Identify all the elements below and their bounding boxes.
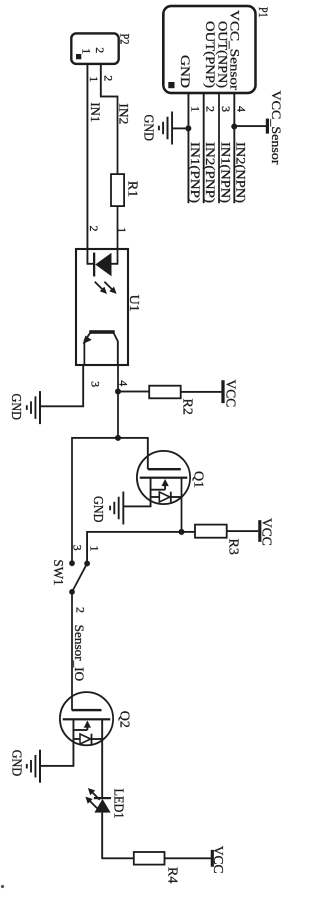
svg-text:GND: GND [91, 496, 106, 523]
wire R3 to VCC [227, 530, 259, 532]
connector P2 box [71, 33, 118, 64]
svg-text:3: 3 [89, 381, 103, 387]
U1 transistor base bar [89, 330, 115, 334]
wire R1 to U1 pin1 [117, 206, 119, 249]
scan speck [1, 885, 4, 888]
wire Q2 source to ground [40, 739, 73, 766]
svg-text:IN2(NPN): IN2(NPN) [234, 142, 248, 203]
channel bar [63, 718, 111, 720]
wire U1 pin1 to LED anode [112, 249, 118, 264]
wire LED cathode to U1 pin2 [87, 249, 93, 264]
svg-text:U1: U1 [126, 295, 141, 312]
wire to VCC_Sensor bar [234, 125, 266, 127]
svg-text:P1: P1 [256, 7, 271, 18]
svg-text:GND: GND [9, 750, 24, 777]
svg-text:2: 2 [93, 47, 107, 53]
svg-text:VCC: VCC [260, 518, 275, 546]
gate bar [148, 468, 181, 470]
svg-text:1: 1 [88, 546, 102, 552]
svg-text:P2: P2 [117, 34, 132, 45]
svg-text:R1: R1 [124, 181, 139, 197]
svg-text:Sensor_IO: Sensor_IO [72, 625, 86, 682]
light arrow 1 of LED1 [91, 791, 100, 800]
ground symbol at Q2 source [39, 750, 41, 783]
connector P1 box [163, 6, 255, 93]
wire corner up to R4 [101, 857, 133, 859]
wire junction to Q1 gate [118, 438, 148, 469]
svg-text:LED1: LED1 [111, 789, 126, 819]
svg-text:Q2: Q2 [116, 711, 131, 728]
SW1 throw 1 contact [84, 561, 90, 567]
SW1 throw 3 contact [69, 560, 75, 566]
wire P1 pin1 net IN1(PNP) [187, 93, 189, 203]
svg-text:VCC: VCC [224, 380, 239, 408]
resistor R2 [149, 386, 181, 399]
mosfet Q1 [137, 451, 190, 504]
junction P1 pin4 to VCC_Sensor [231, 124, 237, 130]
wire P1 pin4 net IN2(NPN) [233, 93, 235, 203]
source-body tie wire [151, 489, 166, 491]
P1 pin1 marker dot [169, 83, 174, 88]
ground symbol at U1 pin3 [39, 391, 41, 424]
svg-text:IN2(PNP): IN2(PNP) [203, 142, 217, 203]
svg-text:1: 1 [87, 76, 101, 82]
svg-text:3: 3 [219, 106, 233, 112]
source-body tie wire [73, 729, 87, 731]
svg-text:GND: GND [178, 55, 193, 88]
svg-text:1: 1 [115, 227, 129, 233]
U1 transistor collector to pin4 [114, 333, 118, 365]
power VCC at R2 [221, 380, 224, 403]
svg-text:R3: R3 [226, 539, 241, 555]
wire P1 pin2 net IN2(PNP) [203, 93, 205, 203]
svg-text:2: 2 [102, 75, 116, 81]
opto U1 box [76, 249, 128, 365]
mosfet Q2 [60, 692, 113, 745]
LED cathode bar inside U1 [93, 253, 95, 277]
wire junction to SW1 throw 3 [72, 438, 118, 563]
gate bar [72, 709, 102, 711]
wire P1 pin3 net IN1(NPN) [218, 93, 220, 203]
source stub [72, 719, 74, 739]
light arrow 2 of U1 [104, 282, 113, 291]
svg-text:4: 4 [234, 106, 248, 112]
wire Q2 drain to LED1 cathode [101, 739, 103, 797]
svg-text:2: 2 [73, 607, 87, 613]
mosfet body circle [137, 451, 190, 504]
svg-text:3: 3 [70, 545, 84, 551]
svg-text:IN1(NPN): IN1(NPN) [218, 142, 232, 203]
power VCC_Sensor bar [266, 119, 269, 134]
wire SW1 common to Q2 gate [71, 592, 73, 710]
wire R2 to VCC [181, 391, 222, 393]
resistor R4 [134, 852, 165, 865]
LED1 cathode bar [94, 797, 111, 799]
wire U1 pin4 rail [117, 365, 119, 438]
ground symbol at P1 pin1 [171, 112, 173, 145]
wire R4 to VCC [165, 857, 211, 859]
svg-text:GND: GND [9, 394, 24, 421]
wire junction to R2 [118, 391, 149, 393]
U1 transistor emitter to pin3 [84, 333, 90, 365]
svg-text:VCC: VCC [211, 846, 226, 874]
P2 pin1 marker dot [77, 55, 81, 59]
svg-text:1: 1 [79, 48, 93, 54]
svg-text:R4: R4 [165, 867, 180, 883]
svg-text:IN1(PNP): IN1(PNP) [188, 142, 202, 203]
junction pin4/Q1 gate/SW1 [115, 435, 121, 441]
wire junction to SW1 throw 1 [87, 532, 181, 564]
svg-text:VCC_Sensor: VCC_Sensor [269, 91, 283, 166]
svg-text:2: 2 [204, 106, 218, 112]
svg-text:R2: R2 [180, 399, 195, 415]
light arrow 2 of LED1 [88, 799, 97, 808]
drain stub [101, 719, 103, 739]
junction P1 pin1 to GND [185, 125, 191, 131]
svg-text:OUT(PNP): OUT(PNP) [203, 21, 218, 88]
wire IN1 from P2 pin1 to U1 pin2 [86, 64, 88, 249]
body diode [92, 738, 103, 740]
svg-text:IN2: IN2 [117, 103, 131, 124]
SW1 lever [72, 564, 87, 592]
wire to GND [172, 127, 188, 129]
wire U1 pin3 to ground [40, 365, 83, 406]
junction pin4/R2 [115, 389, 121, 395]
body stub with arrow [164, 485, 166, 490]
ground symbol at Q1 source [122, 492, 124, 525]
wire Q1 drain to junction [181, 497, 183, 532]
light arrow 1 of U1 [95, 282, 104, 291]
resistor R1 [111, 174, 124, 206]
body stub with arrow [86, 726, 88, 730]
wire LED1 anode to corner [101, 813, 103, 859]
wire IN2 from P2 pin2 to R1 [101, 64, 118, 174]
LED1 triangle [94, 799, 110, 813]
SW1 common contact [69, 589, 75, 595]
resistor R3 [195, 525, 227, 538]
mosfet body circle [60, 692, 113, 745]
U1 emitter arrowhead [83, 336, 92, 344]
LED triangle inside U1 [95, 253, 111, 276]
svg-text:GND: GND [141, 115, 156, 142]
svg-text:1: 1 [188, 106, 202, 112]
wire Q1 source to ground [123, 497, 150, 506]
power VCC at R4 [211, 850, 214, 867]
svg-text:SW1: SW1 [50, 560, 65, 586]
body diode [171, 496, 182, 498]
svg-text:IN1: IN1 [88, 102, 102, 122]
svg-text:2: 2 [87, 226, 101, 232]
junction Q1 drain/R3/SW1 [179, 529, 185, 535]
drain stub [181, 478, 183, 497]
power VCC at R3 [258, 520, 261, 542]
channel bar [140, 477, 188, 479]
svg-text:Q1: Q1 [191, 471, 206, 488]
source stub [150, 478, 152, 497]
wire junction to R3 [182, 531, 196, 533]
